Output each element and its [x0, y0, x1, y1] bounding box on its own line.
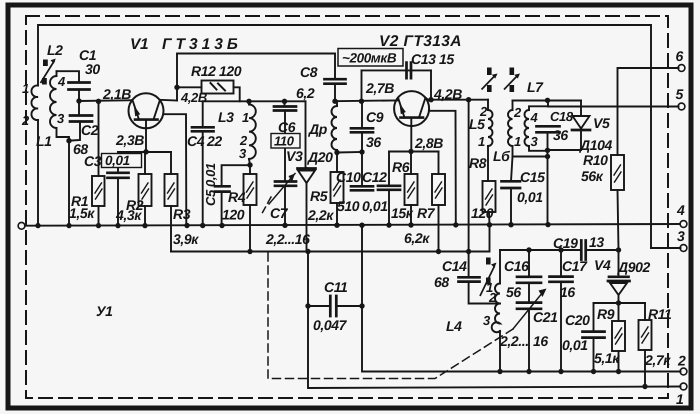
svg-text:L1: L1 — [36, 133, 52, 149]
wire: varicap node — [594, 302, 646, 304]
svg-text:1: 1 — [514, 134, 521, 149]
svg-text:4: 4 — [676, 202, 685, 218]
svg-text:2,2...: 2,2... — [499, 333, 529, 349]
resistor R5 — [331, 153, 344, 226]
svg-text:4,2В: 4,2В — [433, 86, 462, 102]
svg-text:36: 36 — [553, 127, 568, 143]
svg-text:0,01: 0,01 — [105, 153, 130, 168]
junction dots V2 area — [332, 99, 337, 104]
svg-text:1: 1 — [22, 81, 29, 96]
wire: choke to ground-line link — [337, 151, 362, 154]
svg-text:5,1к: 5,1к — [594, 350, 620, 366]
coil L1 — [31, 85, 38, 120]
svg-text:С4: С4 — [187, 133, 205, 149]
svg-text:С5 0,01: С5 0,01 — [203, 163, 218, 206]
trimmer capacitor C7 — [269, 174, 296, 226]
resistor R11 — [639, 303, 652, 387]
terminal 5 — [678, 103, 685, 110]
capacitor C19 — [581, 241, 585, 260]
resistor R10 — [611, 155, 624, 250]
capacitor C3 — [108, 152, 129, 226]
svg-text:3,9к: 3,9к — [173, 231, 199, 247]
svg-text:16: 16 — [560, 284, 575, 300]
svg-text:56к: 56к — [581, 168, 604, 184]
capacitor C5 — [215, 165, 249, 225]
junction dots misc left — [76, 98, 81, 103]
wire: V2 collector rail — [428, 99, 488, 101]
resistor R8 — [483, 181, 496, 225]
wire: R12 left lead — [177, 86, 202, 88]
core adjust icon L6/L7 — [504, 68, 520, 93]
svg-text:1: 1 — [242, 110, 249, 125]
svg-text:13: 13 — [589, 234, 604, 250]
svg-text:L2: L2 — [47, 42, 63, 58]
svg-text:22: 22 — [206, 133, 222, 149]
svg-text:L4: L4 — [446, 318, 462, 334]
capacitor C14 — [459, 277, 480, 281]
capacitor C18 — [537, 126, 560, 132]
svg-text:2,1В: 2,1В — [102, 86, 131, 102]
capacitor C15 — [502, 157, 521, 226]
wire: C13 coupling top — [362, 69, 432, 71]
wire: C14 bottom to L4 tap 2 — [469, 282, 500, 304]
transistor V1 — [129, 93, 187, 225]
capacitor C20 — [583, 303, 605, 372]
wire: oscillator tank rail — [500, 249, 619, 251]
terminal 1 — [680, 383, 687, 390]
capacitor C12 — [378, 152, 400, 226]
wire: V1 emitter input — [79, 99, 132, 102]
svg-text:4: 4 — [530, 110, 539, 125]
svg-text:4: 4 — [57, 74, 66, 89]
svg-text:R6: R6 — [392, 159, 410, 175]
diode V5 — [572, 101, 590, 151]
junction dots on ground bus — [497, 369, 502, 374]
terminal 3 — [680, 245, 687, 252]
svg-text:V3: V3 — [286, 148, 303, 164]
svg-text:4,3к: 4,3к — [115, 207, 142, 223]
svg-text:С21: С21 — [533, 309, 558, 325]
svg-text:2,2...16: 2,2...16 — [265, 231, 310, 247]
svg-text:68: 68 — [434, 274, 449, 290]
core adjust icon L4 — [480, 258, 497, 297]
variable capacitor C21 — [513, 289, 547, 372]
junction dots on AGC line — [247, 249, 252, 254]
capacitor C11 — [308, 296, 362, 316]
svg-text:С13 15: С13 15 — [411, 51, 454, 67]
svg-text:R8: R8 — [469, 155, 487, 171]
input terminal — [18, 222, 25, 229]
varicap V4 — [608, 250, 630, 303]
coil L7 — [525, 106, 548, 151]
capacitor C8 — [325, 79, 346, 101]
wire: V1 emitter node — [118, 151, 171, 153]
svg-text:5: 5 — [676, 86, 684, 102]
svg-text:R4: R4 — [228, 189, 246, 205]
terminal 4 — [680, 221, 687, 228]
svg-text:R3: R3 — [173, 206, 191, 222]
svg-text:Д104: Д104 — [579, 137, 612, 153]
svg-text:С8: С8 — [300, 64, 318, 80]
resistor R9 — [612, 303, 625, 372]
wire: terminal 3 stub — [651, 247, 681, 249]
svg-text:С12: С12 — [362, 169, 387, 185]
svg-text:R12 120: R12 120 — [191, 63, 242, 79]
svg-text:R10: R10 — [583, 152, 608, 168]
label C3 value box — [102, 153, 142, 168]
junction dots tank/varicap — [526, 247, 531, 252]
wire: V1 case tap to bus — [163, 114, 186, 225]
svg-text:6,2к: 6,2к — [404, 230, 430, 246]
resistor R6 — [405, 152, 418, 226]
svg-text:120: 120 — [471, 205, 494, 221]
wire: main common bus — [25, 224, 680, 226]
svg-text:2,7В: 2,7В — [365, 80, 394, 96]
svg-text:С2: С2 — [81, 122, 99, 138]
junction dots on main bus — [35, 223, 40, 228]
svg-text:2: 2 — [677, 353, 686, 369]
wire: V5 cathode link — [548, 149, 582, 151]
svg-text:У1: У1 — [96, 303, 113, 319]
svg-text:2: 2 — [488, 290, 497, 305]
capacitor C16 — [517, 250, 541, 302]
capacitor C2 — [69, 101, 92, 141]
svg-text:2,3В: 2,3В — [115, 132, 144, 148]
core adjust icon L2 — [41, 59, 56, 85]
svg-text:L3: L3 — [218, 109, 234, 125]
svg-text:С7: С7 — [270, 205, 289, 221]
wire: V2 emitter node — [389, 151, 439, 153]
svg-text:2,2к: 2,2к — [307, 207, 334, 223]
svg-text:3: 3 — [239, 146, 247, 161]
svg-text:R5: R5 — [310, 188, 328, 204]
svg-text:V1: V1 — [130, 36, 148, 53]
svg-text:Д20: Д20 — [307, 149, 333, 165]
wire: terminal 6 feed — [618, 68, 679, 155]
choke Dr — [332, 101, 338, 152]
svg-text:С11: С11 — [324, 279, 348, 295]
wire: terminal 1 line — [308, 252, 681, 389]
coil L6 — [508, 101, 547, 157]
signal level callout box ~200mkV — [338, 49, 403, 67]
coil L3 — [249, 101, 256, 165]
diode V3 — [298, 101, 316, 251]
svg-text:2,7к: 2,7к — [644, 352, 671, 368]
svg-text:С14: С14 — [442, 258, 467, 274]
solid supply-rail box outline — [38, 25, 651, 248]
wire: V2 emitter line — [335, 99, 398, 102]
wire: ground bus to terminal 2 — [362, 226, 681, 372]
coil L2 — [50, 71, 69, 141]
svg-text:Lб: Lб — [493, 148, 510, 164]
capacitor C17 — [550, 250, 573, 372]
svg-text:~200мкВ: ~200мкВ — [342, 51, 397, 66]
capacitor C4 — [192, 101, 214, 225]
resistor R12 — [202, 81, 234, 94]
wire: C18 node drop — [547, 132, 549, 224]
terminal 2 — [680, 368, 687, 375]
svg-text:0,01: 0,01 — [517, 189, 543, 205]
svg-text:С18: С18 — [550, 109, 574, 124]
coil L4 — [492, 250, 500, 372]
terminal 6 — [678, 65, 685, 72]
svg-text:3: 3 — [677, 228, 685, 244]
capacitor C10 — [351, 152, 373, 190]
svg-text:2: 2 — [479, 104, 488, 119]
svg-text:R9: R9 — [597, 306, 615, 322]
svg-text:V4: V4 — [594, 257, 611, 273]
resistor R3 — [165, 152, 178, 252]
svg-text:510: 510 — [337, 198, 360, 214]
svg-text:R7: R7 — [417, 205, 436, 221]
svg-text:4,2В: 4,2В — [180, 90, 207, 105]
svg-text:2,8В: 2,8В — [414, 135, 443, 151]
svg-text:120: 120 — [222, 207, 245, 223]
gang tuning dashed link — [263, 197, 272, 213]
transistor V2 — [394, 91, 456, 224]
svg-text:Др: Др — [308, 121, 328, 137]
label C6 value box — [271, 134, 300, 149]
wire: L2/C2 common down to bus — [68, 141, 70, 226]
svg-text:15к: 15к — [391, 205, 414, 221]
svg-text:V2 ГТ313А: V2 ГТ313А — [379, 33, 462, 50]
svg-text:С15: С15 — [520, 169, 545, 185]
wire: terminal 5 feed — [548, 101, 679, 107]
svg-text:Д902: Д902 — [617, 259, 650, 275]
wire: second (AGC) line — [171, 225, 490, 252]
wire: oscillator feed drop to C14 — [468, 100, 470, 277]
svg-text:6,2: 6,2 — [296, 85, 315, 101]
wire: IF transformer top rail — [513, 100, 582, 102]
wire: R12 right lead down to tank — [234, 87, 240, 101]
svg-text:С3: С3 — [84, 153, 102, 169]
wire: C13 right drop — [430, 70, 432, 99]
svg-text:0,047: 0,047 — [313, 317, 348, 333]
svg-text:6: 6 — [676, 48, 684, 64]
svg-text:0,01: 0,01 — [362, 198, 388, 214]
svg-text:С9: С9 — [366, 109, 384, 125]
svg-text:V5: V5 — [593, 115, 610, 131]
svg-text:С19: С19 — [553, 235, 578, 251]
wire: V2 case tap to bus — [429, 111, 456, 225]
svg-text:2: 2 — [513, 105, 522, 120]
svg-text:1,5к: 1,5к — [69, 205, 95, 221]
resistor R1 — [92, 101, 105, 225]
svg-text:ГТ313Б: ГТ313Б — [162, 36, 242, 53]
svg-text:L7: L7 — [527, 79, 544, 95]
coil L5 — [488, 100, 493, 181]
resistor R7 — [432, 152, 445, 252]
svg-text:3: 3 — [483, 313, 491, 328]
wire: V1 tank top rail — [203, 100, 306, 102]
core adjust icon L5 — [482, 68, 498, 93]
svg-text:36: 36 — [366, 134, 381, 150]
svg-text:С20: С20 — [565, 312, 590, 328]
svg-text:R11: R11 — [648, 306, 672, 322]
wire: V1 collector riser and top link to C8 — [177, 54, 335, 101]
wire: L6 bottom tie — [513, 156, 548, 158]
resistor R4 — [244, 165, 257, 252]
capacitor C6 — [274, 101, 296, 181]
svg-text:2: 2 — [21, 113, 30, 128]
capacitor C1 — [57, 71, 90, 101]
svg-text:1: 1 — [676, 391, 684, 407]
svg-text:С17: С17 — [562, 258, 588, 274]
svg-text:30: 30 — [85, 61, 100, 77]
svg-text:С10: С10 — [336, 169, 361, 185]
svg-text:110: 110 — [274, 134, 295, 149]
wire: C13 left drop — [361, 70, 363, 101]
svg-text:0,01: 0,01 — [562, 337, 588, 353]
svg-text:1: 1 — [478, 134, 485, 149]
capacitor C9 — [351, 101, 373, 152]
svg-text:3: 3 — [57, 111, 65, 126]
svg-text:3: 3 — [531, 134, 539, 149]
capacitor C13 — [407, 63, 412, 79]
junction dots IF/det area — [545, 98, 550, 103]
svg-text:16: 16 — [533, 333, 548, 349]
svg-text:56: 56 — [506, 284, 521, 300]
resistor R2 — [139, 152, 152, 226]
svg-text:С16: С16 — [504, 258, 529, 274]
